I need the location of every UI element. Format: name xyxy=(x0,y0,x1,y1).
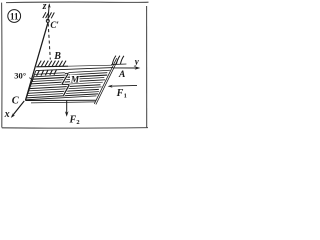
svg-text:2: 2 xyxy=(76,119,79,126)
svg-text:30°: 30° xyxy=(14,71,26,81)
svg-text:B: B xyxy=(53,51,61,62)
svg-text:F: F xyxy=(69,115,77,126)
angle 30 degrees xyxy=(29,78,33,82)
problem number 11 xyxy=(8,10,21,23)
plate outline xyxy=(26,68,114,103)
ring at C' xyxy=(46,19,49,22)
svg-text:1: 1 xyxy=(124,92,127,99)
svg-text:A: A xyxy=(118,70,125,80)
x axis xyxy=(11,101,24,118)
svg-text:11: 11 xyxy=(10,11,19,21)
ceiling support hatching at C' xyxy=(43,12,55,18)
wall hatching at B xyxy=(38,61,66,67)
hinge hatching on plate edge near B xyxy=(37,69,57,76)
figure frame border (decorative) xyxy=(6,1,149,4)
wall line xyxy=(36,65,68,68)
svg-text:C: C xyxy=(12,95,20,106)
svg-text:M: M xyxy=(70,75,80,85)
svg-text:C′: C′ xyxy=(50,20,59,30)
plate hatching xyxy=(26,70,110,100)
force F2 xyxy=(65,101,69,117)
wall hatching at A support xyxy=(111,56,126,65)
couple M symbol (zigzag arrow) xyxy=(62,73,69,95)
svg-text:x: x xyxy=(4,109,10,120)
z axis xyxy=(48,3,51,21)
rod at A (double line, plate right edge) xyxy=(94,58,118,104)
dashed z axis segment C' to B xyxy=(48,23,50,59)
string C' to C xyxy=(25,22,48,100)
y axis xyxy=(113,66,140,69)
svg-text:z: z xyxy=(42,1,47,12)
svg-text:F: F xyxy=(116,88,124,99)
force F1 xyxy=(108,85,137,88)
